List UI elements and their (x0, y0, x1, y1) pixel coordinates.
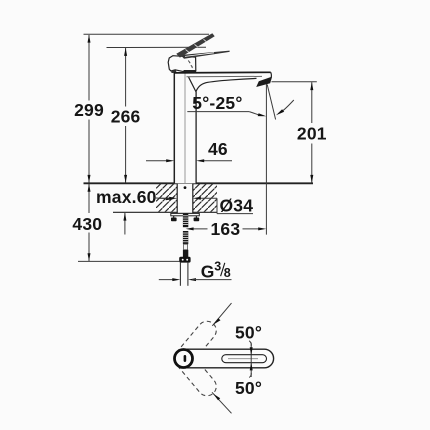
faucet column center line (184, 73, 186, 183)
wire extension line (closed lever height 266) (107, 46, 207, 48)
tube center line (228, 358, 258, 360)
mounting flange plate (171, 213, 200, 215)
svg-text:Ø34: Ø34 (220, 195, 254, 215)
wire max.60 leader arrow (154, 197, 167, 200)
svg-text:46: 46 (208, 139, 228, 159)
svg-text:163: 163 (211, 219, 241, 239)
dimension 46 (146, 160, 170, 162)
wire extension line top (lever height 299) (84, 33, 210, 35)
node shank center dot (184, 186, 187, 189)
wire 25deg curved arrow (280, 100, 294, 113)
dashed swivel outline upper (+50) (170, 317, 220, 371)
angle dimension vertical line (250, 343, 252, 378)
base inner tick (184, 355, 187, 362)
svg-text:430: 430 (72, 214, 102, 234)
spout body capsule (174, 349, 273, 368)
hose connector (179, 257, 190, 263)
shank tube through counter (177, 184, 193, 213)
faucet body (cartridge housing) (168, 56, 196, 72)
svg-text:50°: 50° (235, 378, 262, 398)
svg-text:max.60: max.60 (96, 187, 157, 207)
aerator (256, 77, 272, 87)
lever closed position (181, 51, 230, 59)
dimension Ø34 arrows (159, 197, 171, 199)
counter bottom line (113, 211, 217, 213)
wire 50 bottom outer leader (212, 392, 232, 413)
dimension 266 line (125, 48, 127, 183)
dimension G3/8 arrows (159, 279, 176, 281)
dimension 201 line (311, 82, 313, 183)
svg-text:5°-25°: 5°-25° (192, 93, 242, 113)
dimension max.60 lower arrow (124, 213, 126, 235)
faucet column (174, 73, 196, 183)
dimension 163 (190, 228, 208, 230)
spout top edge (174, 71, 271, 74)
lever raised position (176, 33, 214, 57)
label Ø34 (216, 198, 218, 213)
dimension 299 line (88, 35, 90, 183)
svg-text:G: G (201, 261, 215, 281)
wire extension line aerator (201) (272, 81, 317, 83)
dashed swivel outline lower (-50) (170, 345, 220, 399)
svg-text:299: 299 (74, 100, 104, 120)
svg-text:3: 3 (214, 260, 221, 274)
wire spray 5deg extension line (265, 84, 267, 235)
G3/8 pipe (179, 263, 181, 286)
dimension 430 line (88, 184, 90, 261)
screw left (173, 216, 175, 218)
spout second top line (187, 75, 263, 77)
threaded rod (183, 214, 188, 257)
svg-text:266: 266 (111, 107, 141, 127)
spout tube inner capsule (222, 355, 267, 363)
wire 50 top connector (249, 341, 251, 346)
wire spray 25deg line (267, 85, 275, 120)
spout underside (189, 77, 257, 91)
wire hose-end line (78, 260, 179, 262)
wire 50 top outer leader (212, 303, 231, 326)
base circle (175, 350, 193, 368)
wire 5-25 leader arrow (249, 112, 260, 116)
svg-text:8: 8 (224, 266, 231, 280)
screw right (195, 216, 197, 218)
svg-text:201: 201 (297, 124, 327, 144)
counter top line (84, 182, 314, 184)
svg-text:50°: 50° (235, 323, 262, 343)
spout end cap (270, 72, 271, 80)
wire 50 bottom connector (249, 373, 251, 378)
